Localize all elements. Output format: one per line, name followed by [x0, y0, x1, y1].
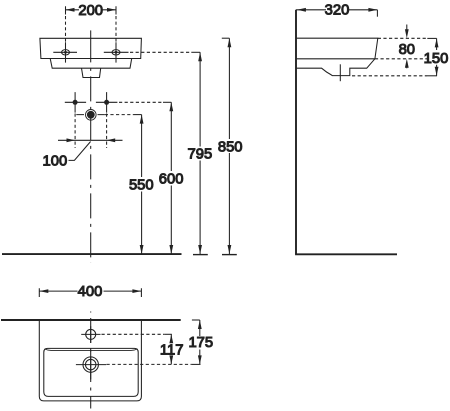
drain centerline side view [339, 64, 341, 81]
svg-text:100: 100 [43, 154, 68, 170]
dimension 80 [405, 25, 409, 69]
basin plan outer outline [39, 320, 141, 401]
faucet hole right [104, 42, 129, 62]
centerline plan view [90, 312, 92, 409]
svg-text:600: 600 [159, 172, 184, 188]
svg-text:320: 320 [325, 2, 350, 18]
basin side profile [297, 38, 378, 75]
dimension 200 [66, 6, 117, 44]
dimension 795 [193, 52, 208, 254]
link line drain to 550 [105, 114, 134, 116]
svg-text:150: 150 [424, 51, 449, 67]
basin front tier2 [50, 59, 132, 69]
reference dashes bowl bottom [375, 58, 427, 60]
link line holes to 600 [119, 101, 163, 103]
svg-text:80: 80 [399, 42, 415, 58]
drain front view [76, 110, 105, 121]
basin front outline tier1 [40, 38, 141, 58]
wall line [295, 10, 297, 255]
basin front drain fitting tier3 [82, 68, 101, 77]
wall line plan view [1, 319, 181, 321]
reference dashes drain bottom [352, 75, 427, 77]
centerline front view [90, 30, 92, 60]
faucet hole left [53, 42, 77, 62]
svg-text:795: 795 [188, 147, 213, 163]
link line faucet to 117 [102, 333, 165, 335]
svg-text:175: 175 [188, 335, 213, 351]
dimension 850 [222, 38, 237, 254]
extension lines mounting holes [75, 114, 107, 149]
floor line side view [295, 253, 397, 255]
drain plan [76, 350, 106, 379]
dimension 117 [169, 334, 173, 364]
basin plan inner bowl [44, 348, 138, 396]
dimension 320 [296, 8, 377, 17]
svg-text:550: 550 [129, 177, 154, 193]
svg-text:850: 850 [218, 139, 243, 155]
bowl slope line [44, 349, 137, 351]
faucet hole plan [81, 326, 100, 343]
floor line front view [2, 253, 182, 255]
dimension 600 [169, 102, 173, 254]
svg-text:400: 400 [78, 284, 103, 300]
mounting hole right [96, 92, 118, 113]
svg-text:200: 200 [78, 3, 103, 19]
mounting hole left [65, 92, 86, 113]
dimension 150 [427, 38, 438, 75]
dimension 175 [192, 320, 202, 364]
dimension 100 [58, 138, 123, 160]
link line faucet holes to 795 [130, 51, 191, 53]
reference dashes top edge [378, 37, 426, 39]
link line drain to 175 [107, 363, 192, 365]
svg-text:117: 117 [160, 343, 184, 359]
dimension 550 [140, 115, 144, 254]
dimension 400 [39, 288, 141, 297]
